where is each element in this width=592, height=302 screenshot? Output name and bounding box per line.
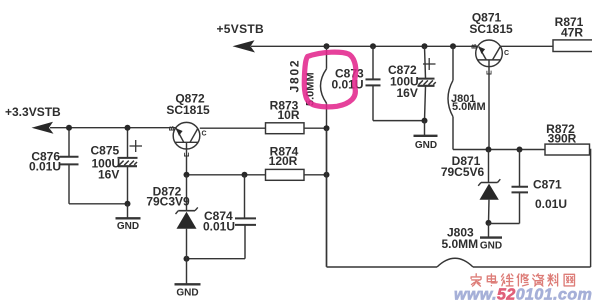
svg-text:47R: 47R	[561, 26, 583, 40]
svg-text:J802: J802	[288, 59, 302, 93]
wire R874 right	[304, 174, 327, 176]
svg-text:C871: C871	[533, 178, 562, 192]
node C874 top junction	[242, 172, 248, 178]
wire Q872 collector to R873	[200, 127, 266, 129]
diode D871 79C5V6 (zener)	[441, 150, 500, 223]
capacitor C876	[29, 128, 79, 204]
node rail dot J801	[450, 43, 456, 49]
wire +5VSTB rail	[251, 45, 477, 47]
wire D872 anode to ground	[186, 259, 188, 284]
svg-text:C: C	[504, 50, 509, 57]
char 资	[533, 274, 544, 286]
transistor Q871 SC1815	[469, 11, 513, 76]
node rail dot C873	[370, 43, 376, 49]
capacitor C875 (electrolytic)	[91, 128, 143, 204]
jumper J802 5.0MM	[288, 46, 327, 266]
node C872 bottom junction	[422, 118, 428, 124]
svg-text:GND: GND	[117, 221, 139, 232]
wire bottom return rail right	[473, 266, 591, 268]
svg-text:120R: 120R	[269, 154, 298, 168]
svg-text:GND: GND	[176, 288, 198, 299]
wire Q872 emitter down	[186, 149, 188, 175]
wire +3.3VSTB rail	[50, 127, 176, 129]
resistor R871 47R	[553, 15, 592, 52]
char 电	[487, 274, 497, 286]
jumper J803 5.0MM	[437, 226, 478, 268]
capacitor C872 (electrolytic)	[388, 46, 436, 120]
char 网	[564, 274, 574, 286]
svg-text:www.520101.com: www.520101.com	[454, 287, 592, 302]
char 修	[517, 274, 528, 286]
svg-text:5.0MM: 5.0MM	[442, 237, 479, 251]
node C875/C876 junction	[125, 201, 131, 207]
capacitor C874	[203, 175, 256, 259]
capacitor C871	[489, 150, 568, 224]
node 3.3 rail dot B	[125, 125, 131, 131]
svg-text:+3.3VSTB: +3.3VSTB	[5, 105, 61, 119]
node 3.3 rail dot A	[66, 125, 72, 131]
char 料	[548, 274, 558, 286]
node C871 top junction	[517, 147, 523, 153]
wire D871 anode to ground	[488, 223, 490, 237]
net +3.3VSTB label	[5, 105, 61, 119]
svg-text:79C3V9: 79C3V9	[146, 195, 190, 209]
svg-text:390R: 390R	[548, 132, 577, 146]
ground GND (under C875)	[116, 218, 141, 232]
svg-text:SC1815: SC1815	[469, 22, 513, 36]
svg-text:E: E	[487, 70, 494, 75]
svg-text:79C5V6: 79C5V6	[441, 165, 485, 179]
wire C876 bottom to junction	[69, 203, 128, 205]
node emitter junction	[184, 172, 190, 178]
svg-text:16V: 16V	[397, 86, 418, 100]
ground GND (under D871)	[480, 238, 502, 252]
svg-text:16V: 16V	[98, 168, 119, 182]
wire C873/C872 bottom join	[373, 120, 425, 122]
node R873 right junction	[324, 125, 330, 131]
svg-text:0.01U: 0.01U	[203, 220, 235, 234]
wire bottom return rail left	[327, 128, 438, 267]
node rail dot J802	[324, 43, 330, 49]
svg-text:5.0MM: 5.0MM	[452, 101, 486, 113]
node D871 anode junction	[486, 220, 492, 226]
node rail dot C872	[422, 43, 428, 49]
wire Q871 emitter down	[488, 67, 490, 150]
ground GND (under D872)	[175, 284, 201, 298]
node D872 anode junction	[184, 256, 190, 262]
svg-text:B: B	[472, 44, 479, 49]
svg-text:B: B	[169, 126, 176, 131]
wire C872 to ground	[424, 121, 426, 136]
wire R873 right	[304, 127, 327, 129]
resistor R874 120R	[266, 145, 305, 181]
wire to ground	[127, 204, 129, 218]
char 维	[502, 274, 514, 286]
node Q871 emitter junction	[486, 147, 492, 153]
svg-text:GND: GND	[415, 140, 437, 151]
svg-text:10R: 10R	[277, 108, 299, 122]
svg-text:SC1815: SC1815	[166, 103, 210, 117]
svg-text:C: C	[202, 131, 207, 138]
diode D872 79C3V9 (zener)	[146, 175, 197, 259]
wire Q871 collector to R871	[500, 45, 553, 47]
node R874 right junction	[324, 172, 330, 178]
net +5VSTB label	[217, 22, 265, 36]
watermark chinese text 家电维修资料网	[471, 274, 574, 286]
resistor R873 10R	[266, 99, 305, 134]
svg-text:+5VSTB: +5VSTB	[217, 22, 265, 36]
wire emitter rail (J801 to R872)	[453, 149, 545, 151]
capacitor C873	[332, 46, 381, 120]
net +5VSTB arrow	[233, 40, 256, 52]
svg-text:E: E	[184, 152, 191, 157]
wire C874 bottom to diode node	[187, 258, 246, 260]
transistor Q872 SC1815	[166, 92, 210, 158]
svg-text:GND: GND	[480, 241, 502, 252]
svg-text:0.01U: 0.01U	[535, 197, 567, 211]
svg-text:C875: C875	[91, 144, 120, 158]
ground GND (under C872)	[414, 136, 438, 151]
wire R872 right down to bottom rail	[590, 150, 591, 268]
jumper J801 5.0MM	[448, 46, 486, 149]
resistor R872 390R	[545, 122, 590, 155]
net +3.3VSTB arrow	[32, 122, 54, 134]
highlight pink marker circle around C873/J802	[304, 52, 356, 107]
char 家	[471, 274, 481, 286]
svg-text:0.01U: 0.01U	[332, 78, 364, 92]
wire emitter node to R874 left	[187, 174, 266, 176]
watermark url www.520101.com	[454, 287, 592, 302]
svg-text:0.01U: 0.01U	[29, 160, 61, 174]
